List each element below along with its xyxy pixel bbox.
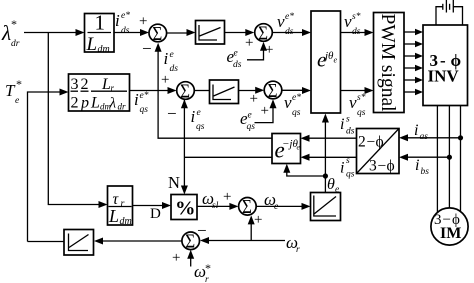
node i_as label — [414, 122, 428, 142]
svg-text:N: N — [168, 173, 180, 192]
svg-text:3: 3 — [369, 158, 377, 175]
svg-text:e*: e* — [285, 12, 294, 22]
node theta_e label — [327, 176, 339, 195]
svg-text:ϕ: ϕ — [376, 134, 384, 151]
wire e^jtheta to PWM (q) — [341, 90, 366, 92]
wire S3 to e^jtheta block — [273, 32, 303, 34]
wire inverter phase b to motor — [448, 106, 450, 209]
svg-text:s*: s* — [357, 93, 366, 103]
wire T*e loop from speed limiter up into 3/2 block — [28, 92, 61, 242]
block 2-phi / 3-phi transform — [357, 129, 400, 175]
wire i_bs sense to 2ph/3ph — [407, 156, 449, 158]
svg-text:bs: bs — [421, 167, 430, 177]
block divider % — [171, 195, 197, 220]
wire branch lambda down to tau_r/Ldm — [48, 33, 99, 205]
svg-text:ds: ds — [121, 26, 130, 36]
node v_ds^e* label — [277, 12, 294, 37]
wire omega_r* into S6 — [190, 258, 192, 267]
svg-text:i: i — [340, 116, 344, 133]
svg-text:Σ: Σ — [242, 196, 252, 219]
svg-text:v: v — [284, 93, 292, 112]
svg-text:3: 3 — [71, 76, 79, 93]
node i_qs^s label — [340, 156, 355, 180]
motor 3-phase IM — [431, 208, 468, 245]
svg-text:−: − — [367, 134, 376, 151]
svg-text:+: + — [161, 72, 169, 88]
node junction dot phase a — [458, 135, 463, 140]
svg-text:L: L — [101, 76, 111, 93]
wire PWM to INV gate signals (6 arrows) — [404, 29, 423, 95]
svg-text:e: e — [334, 56, 338, 65]
op-amp PI/limiter L1 (d current controller) — [196, 21, 225, 45]
svg-text:ds: ds — [170, 64, 179, 74]
svg-text:r: r — [121, 199, 125, 210]
svg-text:r: r — [296, 245, 300, 255]
svg-text:e: e — [197, 108, 201, 118]
svg-text:+: + — [139, 14, 147, 30]
node i_qs^e label — [191, 107, 205, 132]
summing junction S6 (speed error) — [182, 230, 200, 253]
svg-text:r: r — [205, 275, 209, 283]
svg-text:e*: e* — [121, 11, 130, 21]
svg-text:ϕ: ϕ — [387, 158, 395, 175]
wire S2 to limiter L2 — [195, 90, 210, 92]
svg-text:λ: λ — [1, 21, 11, 45]
svg-text:i: i — [115, 11, 120, 30]
svg-text:L: L — [90, 95, 100, 112]
svg-text:i: i — [414, 122, 418, 139]
node omega_e label — [264, 190, 278, 212]
wire L1 to summing S3 — [225, 32, 247, 34]
svg-text:−: − — [167, 104, 177, 123]
svg-text:i: i — [164, 49, 169, 68]
svg-text:e: e — [170, 50, 174, 60]
wire L2 to summing S4 — [239, 90, 256, 92]
svg-text:%: % — [175, 198, 196, 220]
node i_ds^e feedback label — [164, 49, 179, 74]
svg-text:2: 2 — [71, 95, 79, 112]
wire S6 to speed limiter — [103, 240, 182, 242]
svg-text:IM: IM — [440, 225, 461, 242]
svg-text:+: + — [245, 35, 253, 51]
wire divider to summing S5 — [197, 205, 230, 207]
svg-text:e: e — [15, 96, 19, 106]
node v_qs^e* label — [284, 93, 301, 118]
svg-text:−: − — [197, 221, 207, 240]
svg-text:qs: qs — [357, 108, 366, 118]
svg-text:ds: ds — [346, 127, 355, 137]
wire inverter phase a to motor — [436, 106, 438, 213]
summing junction S1 (d-axis current) — [149, 23, 167, 46]
wire theta_e branch to e^-jtheta — [287, 172, 326, 176]
svg-text:qs: qs — [346, 170, 355, 180]
wire e^-jtheta q-output feedback joins N line — [184, 156, 272, 158]
svg-text:L: L — [86, 34, 98, 55]
svg-text:+: + — [172, 250, 180, 266]
svg-text:p: p — [80, 95, 89, 112]
block 3-phase inverter INV — [423, 25, 468, 106]
svg-text:qs: qs — [292, 108, 301, 118]
block tau_r/Ldm — [108, 186, 133, 227]
svg-text:2: 2 — [358, 134, 366, 151]
svg-text:+: + — [223, 189, 231, 205]
op-amp speed controller limiter — [64, 230, 94, 256]
svg-text:Σ: Σ — [152, 23, 162, 46]
node omega_sl label — [202, 189, 219, 211]
block 3/2 2/p Lr/(Ldm lambda_dr) — [69, 74, 130, 112]
svg-text:Σ: Σ — [268, 80, 278, 103]
svg-text:dm: dm — [98, 44, 110, 55]
svg-text:i: i — [191, 107, 196, 126]
svg-text:INV: INV — [428, 67, 460, 86]
wire e^-jtheta d-output feedback to S1 — [158, 51, 272, 138]
svg-text:e*: e* — [140, 91, 149, 101]
wire speed limiter output to T*e corner — [28, 241, 65, 243]
svg-text:v: v — [344, 12, 352, 31]
wire integrator up to e^jtheta — [324, 122, 326, 193]
svg-text:dr: dr — [118, 102, 127, 112]
wire S5 to integrator — [256, 205, 302, 207]
svg-text:+: + — [254, 212, 262, 228]
svg-text:dr: dr — [11, 39, 20, 49]
node v_qs^s* label — [349, 93, 366, 118]
summing junction S5 (omega_e) — [239, 196, 257, 219]
wire omega_r feedback horizontal — [208, 240, 285, 242]
svg-text:jθ: jθ — [323, 50, 334, 62]
svg-text:qs: qs — [247, 122, 256, 132]
svg-text:Σ: Σ — [180, 80, 190, 103]
svg-text:as: as — [420, 132, 429, 142]
svg-text:v: v — [277, 12, 285, 31]
svg-text:i: i — [415, 157, 419, 174]
svg-text:2: 2 — [81, 76, 89, 93]
svg-text:v: v — [349, 93, 357, 112]
node junction dot phase b — [447, 155, 452, 160]
svg-text:ds: ds — [233, 60, 242, 70]
svg-text:i: i — [340, 160, 344, 177]
svg-text:*: * — [11, 17, 17, 31]
svg-text:−: − — [142, 39, 152, 58]
svg-text:λ: λ — [109, 96, 117, 112]
svg-text:+: + — [261, 103, 269, 119]
svg-text:i: i — [134, 90, 139, 109]
wire 3/2 block to summing S2 — [130, 90, 169, 92]
node e_ds^e label — [227, 47, 242, 70]
block PWM signal generator — [374, 13, 405, 113]
svg-text:*: * — [205, 261, 211, 275]
wire S2 feedback / N input vertical — [183, 100, 185, 186]
wire inverter phase c to motor — [460, 106, 462, 213]
svg-text:L: L — [108, 206, 119, 226]
svg-text:qs: qs — [196, 122, 205, 132]
svg-text:1: 1 — [95, 11, 106, 35]
svg-text:e: e — [248, 111, 252, 121]
wire i_as sense to 2ph/3ph — [407, 137, 461, 139]
svg-text:D: D — [150, 206, 161, 222]
node i_ds^e* label — [115, 11, 130, 36]
node e_qs^e label — [240, 109, 255, 132]
node lambda*_dr input label — [1, 17, 20, 49]
node omega_r label — [286, 233, 300, 255]
svg-text:s: s — [346, 115, 350, 125]
svg-text:qs: qs — [140, 105, 149, 115]
svg-text:θ: θ — [327, 176, 335, 193]
wire 1/Ldm to summing S1 — [114, 32, 141, 34]
block 1/Ldm — [85, 11, 115, 56]
node i_ds^s label — [340, 115, 355, 137]
summing junction S2 (q-axis current) — [177, 80, 195, 103]
block integrator — [311, 193, 341, 221]
op-amp PI/limiter L2 (q current controller) — [210, 80, 239, 104]
battery DC link — [436, 0, 463, 25]
wire S1 to limiter L1 — [167, 32, 187, 34]
node theta_e junction dot — [323, 173, 328, 178]
svg-text:Σ: Σ — [185, 230, 195, 253]
node T_e* input label — [5, 77, 22, 106]
svg-text:dm: dm — [120, 216, 132, 227]
wire e_ds^e into S3 — [247, 50, 264, 60]
svg-text:+: + — [250, 91, 258, 107]
svg-text:*: * — [16, 77, 22, 91]
svg-text:s*: s* — [352, 12, 361, 22]
wire 2ph/3ph to e^-jtheta (q) — [309, 156, 357, 158]
svg-text:e: e — [234, 49, 238, 59]
summing junction S3 (d-axis voltage) — [255, 22, 273, 45]
svg-text:PWM signal: PWM signal — [377, 13, 398, 112]
wire e_qs^e into S4 — [255, 108, 274, 123]
wire lambda*_dr to block 1/Ldm — [24, 32, 76, 34]
node v_ds^s* label — [344, 12, 361, 37]
wire e^jtheta to PWM (d) — [341, 32, 366, 34]
node i_qs^e* label — [134, 90, 149, 115]
svg-text:−: − — [378, 158, 387, 175]
wire 2ph/3ph to e^-jtheta (d) — [309, 137, 357, 139]
svg-text:e*: e* — [292, 93, 301, 103]
wire omega_r branch up to S5 — [250, 224, 252, 241]
node omega_r* reference label — [194, 261, 211, 283]
block e^-jtheta_e (vector rotator inverse) — [272, 134, 301, 164]
summing junction S4 (q-axis voltage) — [264, 80, 282, 103]
wire tau block to divider — [133, 205, 163, 207]
wire S4 to e^jtheta block — [282, 89, 303, 91]
block e^jtheta_e (vector rotator) — [311, 11, 341, 113]
node i_bs label — [415, 157, 429, 177]
